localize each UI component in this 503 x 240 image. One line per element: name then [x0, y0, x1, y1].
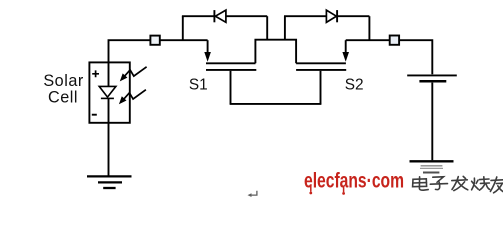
- connector J1 (small square): [150, 36, 159, 45]
- wire: J1 to S1 drain node: [160, 39, 208, 41]
- wire: gate bus S1 to S2: [230, 103, 322, 105]
- transistor S1 gate bar: [206, 69, 256, 71]
- watermark elecfans.com: [304, 168, 404, 195]
- solar cell internal cathode wire: [108, 98, 110, 123]
- wire: D2 right segment: [337, 15, 369, 17]
- diode D2 (cathode right): [326, 10, 337, 22]
- wire: S1 gate down: [230, 71, 232, 104]
- solar cell internal anode wire: [108, 62, 110, 86]
- transistor S2 gate bar: [296, 69, 346, 71]
- wire: J2 to battery positive: [399, 40, 432, 74]
- solar cell PV1 box: [89, 62, 129, 122]
- wire: D2 left segment: [284, 15, 326, 17]
- battery B1: [407, 75, 457, 81]
- label minus terminal: [92, 114, 97, 116]
- wire: D1 down to mid node: [266, 16, 268, 40]
- watermark chinese char you: [490, 177, 503, 193]
- enter mark: [248, 191, 257, 197]
- wire: solar cell positive terminal up and right to connector J1: [109, 40, 151, 63]
- wire: solar cell to ground: [108, 123, 110, 176]
- wire: D1 left segment: [182, 15, 214, 17]
- watermark chinese char shao: [472, 177, 490, 190]
- svg-text:Cell: Cell: [48, 89, 78, 107]
- connector J2 (small square): [390, 36, 399, 45]
- diode D1 (cathode left): [214, 10, 226, 22]
- wire: D1 right segment: [226, 15, 267, 17]
- ground G2: [410, 161, 454, 172]
- svg-text:S2: S2: [345, 76, 364, 93]
- svg-text:Solar: Solar: [43, 72, 84, 90]
- wire: mid node between S1 source and S2 source: [255, 40, 296, 64]
- watermark chinese char fa: [452, 176, 468, 190]
- wire: branch up to diode D1 anode loop: [182, 16, 184, 40]
- wire: battery negative to ground: [431, 83, 433, 161]
- light arrow 2: [119, 90, 146, 105]
- svg-text:S1: S1: [189, 76, 208, 93]
- transistor S2 drain arrow: [342, 40, 349, 62]
- wire: S2 drain node to connector J2: [346, 39, 390, 41]
- transistor S1 channel bar: [206, 62, 256, 64]
- transistor S1 drain arrow: [204, 40, 211, 62]
- svg-text:elecfans·com: elecfans·com: [304, 168, 404, 192]
- ground G1: [87, 176, 132, 188]
- wire: S2 gate down: [320, 71, 322, 104]
- solar cell diode symbol: [99, 86, 116, 98]
- label plus terminal: [92, 70, 99, 77]
- watermark chinese char zi: [430, 177, 447, 190]
- light arrow 1: [120, 67, 147, 82]
- wire: D2 down to right node: [368, 16, 370, 40]
- transistor S2 channel bar: [296, 62, 346, 64]
- wire: mid node up to diode D2 anode: [284, 16, 286, 40]
- watermark chinese char dian: [413, 177, 429, 190]
